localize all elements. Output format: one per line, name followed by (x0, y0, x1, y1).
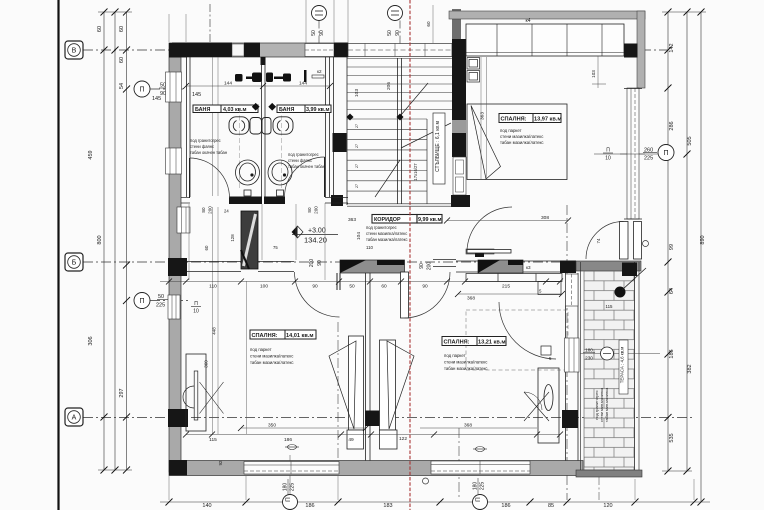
bedroom2 label box (442, 337, 506, 346)
svg-text:стени фаянс: стени фаянс (190, 144, 214, 149)
svg-text:под гранитогрес: под гранитогрес (288, 152, 319, 157)
axis marker П2 left (134, 293, 188, 309)
svg-text:60: 60 (119, 26, 125, 32)
svg-text:стени мазилка/латекс: стени мазилка/латекс (444, 360, 488, 365)
toilet 2 (262, 117, 293, 134)
bedroom 13.97 door leaf (467, 250, 511, 254)
svg-text:186: 186 (284, 437, 292, 443)
svg-text:200: 200 (208, 206, 213, 214)
svg-text:50: 50 (387, 30, 393, 36)
svg-text:890: 890 (700, 235, 706, 244)
west wall black block axis Б (168, 258, 187, 276)
svg-text:П: П (663, 150, 668, 157)
bathroom partition wall (262, 57, 266, 197)
bedroom2 north closet (466, 274, 562, 295)
svg-text:180: 180 (585, 348, 593, 353)
stair east wall gray gap (452, 120, 466, 133)
svg-text:ТЕРАСА : 4,6 кв.м: ТЕРАСА : 4,6 кв.м (620, 347, 625, 384)
svg-text:+3.00: +3.00 (308, 228, 326, 235)
terrace label box (619, 340, 628, 394)
svg-text:СТЪЛБИЩЕ : 6,1 кв.м: СТЪЛБИЩЕ : 6,1 кв.м (435, 121, 441, 172)
stair east wall black mid (452, 133, 466, 157)
west wall black block top corner (169, 43, 187, 58)
terrace south band (576, 470, 642, 477)
balcony door swing arc (586, 222, 624, 260)
shaft (241, 211, 258, 269)
svg-text:СПАЛНЯ:: СПАЛНЯ: (252, 333, 278, 339)
svg-text:200: 200 (309, 259, 315, 268)
svg-text:50: 50 (158, 294, 164, 300)
bedroom1 finish text (250, 347, 294, 365)
bathroom bottom wall thin right (325, 198, 348, 204)
svg-text:225: 225 (480, 482, 486, 491)
stair direction arrows (375, 83, 451, 197)
svg-text:225: 225 (290, 483, 296, 492)
right dimension lines (662, 12, 706, 502)
svg-text:СПАЛНЯ:: СПАЛНЯ: (501, 117, 527, 123)
bedroom1 bed wedge (329, 341, 356, 429)
axis marker Б (65, 253, 83, 271)
fixture centerline bath1 (239, 108, 241, 190)
svg-text:115: 115 (209, 437, 217, 443)
door label 200/90 left (309, 259, 323, 268)
bathroom1 label box (193, 105, 258, 113)
svg-text:225: 225 (156, 303, 165, 309)
svg-text:60: 60 (204, 245, 209, 250)
stairwell west wall black block (333, 133, 347, 152)
svg-text:180: 180 (283, 483, 289, 492)
svg-text:17х16/27: 17х16/27 (413, 163, 418, 181)
bath dim line (183, 81, 333, 90)
svg-text:90: 90 (419, 263, 425, 269)
svg-text:308: 308 (541, 215, 549, 221)
svg-text:90: 90 (319, 30, 325, 36)
terrace north band (576, 261, 641, 271)
bedroom north closet band (466, 24, 624, 56)
svg-text:10: 10 (193, 309, 199, 315)
axis marker П1 left (134, 81, 186, 102)
bedroom west door frame (453, 157, 466, 195)
axis dash-dot vertical x210 (209, 4, 211, 57)
bedroom 13.97 dim 308 (444, 215, 571, 224)
svg-text:к3: к3 (526, 265, 531, 270)
svg-text:60: 60 (119, 57, 125, 63)
svg-text:КОРИДОР: КОРИДОР (374, 217, 401, 223)
svg-text:200: 200 (427, 262, 433, 271)
sink 2 (268, 160, 292, 196)
svg-text:505: 505 (687, 136, 693, 145)
bath2 door arc (285, 157, 325, 197)
top wall base band (181, 43, 348, 57)
bedroom2 east wall (566, 273, 579, 461)
svg-text:9,99 кв.м: 9,99 кв.м (418, 217, 442, 223)
divider wall bedrooms (366, 273, 371, 461)
top window band over stairs (348, 44, 452, 57)
west wall window 2 (166, 148, 182, 174)
red section line (409, 0, 411, 510)
axis line А horizontal (83, 417, 695, 419)
stair stringer (398, 58, 402, 204)
slab edge band top-right (449, 11, 645, 19)
terrace east edge (635, 262, 640, 477)
south wall black block SW (169, 460, 187, 476)
door labels 80/200 bath2 (307, 206, 319, 214)
svg-text:табан мин.мазилка: табан мин.мазилка (604, 387, 609, 422)
left dim ticks (101, 9, 131, 474)
svg-text:под паркет: под паркет (500, 128, 522, 133)
terrace door line (580, 347, 660, 361)
bath1 dim extension lines (213, 57, 219, 434)
svg-text:табан мазилка/латекс: табан мазилка/латекс (444, 366, 488, 371)
terrace NE corner block (622, 263, 637, 277)
svg-text:350: 350 (268, 423, 276, 429)
svg-text:103: 103 (354, 89, 360, 97)
svg-text:табан мазилка/латекс: табан мазилка/латекс (500, 140, 544, 145)
svg-text:122: 122 (399, 436, 407, 442)
svg-text:75: 75 (273, 245, 278, 250)
bedroom 13.97 door arc (467, 207, 512, 252)
axis dash-dot vertical x567 (566, 205, 568, 500)
svg-text:99: 99 (669, 244, 675, 250)
lintel marker k2 (312, 69, 324, 78)
level marker (292, 226, 338, 245)
axis line Б horizontal (83, 261, 578, 263)
svg-text:363: 363 (480, 112, 486, 120)
south wall window bedroom1 (244, 462, 339, 475)
stair east wall black upper (452, 39, 466, 120)
bedroom2 door leaf (401, 272, 409, 318)
bedroom2 finish text (444, 353, 488, 371)
svg-text:110: 110 (209, 284, 217, 290)
svg-text:134.20: 134.20 (304, 236, 327, 245)
lower rooms dim 350 (238, 423, 369, 432)
bathroom west wall (187, 57, 191, 197)
svg-text:306: 306 (88, 336, 94, 345)
axis dash-dot vertical x459 (458, 428, 460, 500)
svg-text:49: 49 (348, 437, 354, 443)
corridor dim line (160, 279, 563, 290)
svg-text:80: 80 (307, 207, 312, 213)
furniture dashed outline bedroom2 (466, 310, 568, 370)
svg-text:50: 50 (311, 30, 317, 36)
bedroom 13.97 finish text (500, 128, 544, 145)
svg-text:П: П (606, 148, 610, 154)
axis marker П3 right (594, 145, 674, 162)
svg-text:74: 74 (596, 238, 601, 243)
middle wall hatched bar 1 (340, 260, 405, 273)
svg-text:120: 120 (603, 503, 612, 509)
svg-text:142: 142 (669, 43, 675, 52)
svg-text:П: П (285, 497, 292, 502)
svg-text:табан мазилка/латекс: табан мазилка/латекс (366, 237, 408, 242)
partition top black (261, 57, 266, 65)
svg-text:к4: к4 (526, 18, 531, 24)
svg-text:115: 115 (606, 304, 614, 309)
svg-text:368: 368 (467, 296, 475, 302)
left dimension lines (98, 12, 132, 470)
bedroom2 nightstand (380, 430, 398, 449)
svg-text:табан окачен табан: табан окачен табан (288, 164, 325, 169)
fixture centerline bath2 (281, 108, 283, 190)
middle wall segment c (433, 260, 456, 267)
bath2 finish text (288, 152, 325, 169)
svg-text:стени мазилка/латекс: стени мазилка/латекс (500, 134, 544, 139)
svg-text:186: 186 (501, 503, 510, 509)
niche wall below bar1 (337, 273, 340, 290)
svg-text:85: 85 (548, 503, 554, 509)
terrace door frame east wall (565, 338, 580, 372)
balcony door east wall (620, 222, 642, 260)
bathroom2 label box (277, 105, 331, 113)
valve diamond 1 (252, 103, 260, 111)
west wall black block axis А (168, 409, 188, 427)
divider wall black block A (365, 411, 380, 427)
svg-text:100: 100 (260, 284, 268, 290)
middle wall segment a (187, 262, 241, 272)
svg-text:200: 200 (314, 206, 319, 214)
terrace bricks (584, 271, 635, 470)
bathroom bottom wall black segment 2 (264, 197, 285, 205)
terrace extension dashdot (598, 477, 600, 500)
svg-text:145: 145 (152, 96, 161, 102)
svg-text:27: 27 (355, 184, 359, 188)
svg-text:27: 27 (355, 144, 359, 148)
bedroom2 east wall black block A (562, 410, 578, 428)
top dim 60 (426, 5, 433, 43)
svg-text:27: 27 (355, 164, 359, 168)
terrace finish text rotated (594, 387, 609, 422)
bedroom1 bed column (349, 336, 364, 430)
top wall black segment 3 (334, 43, 348, 58)
svg-text:180: 180 (473, 482, 479, 491)
bottom dimension line (160, 501, 710, 503)
svg-text:под гранитогрес: под гранитогрес (366, 225, 397, 230)
bath2 door leaf (324, 157, 326, 197)
middle wall segment b (258, 262, 294, 272)
toilet 1 (229, 117, 262, 134)
svg-text:П: П (139, 87, 144, 94)
bedroom2 door jamb (541, 346, 552, 361)
axis marker П4 bottom (283, 455, 298, 510)
svg-text:103: 103 (591, 70, 596, 78)
valve diamond 2 (268, 103, 276, 111)
west wall window 3 (168, 295, 180, 319)
bathroom bottom wall black segment 1 (229, 197, 262, 205)
svg-text:215: 215 (502, 284, 510, 290)
svg-text:144: 144 (224, 81, 232, 87)
door mark П 10 bedroom1 (191, 301, 201, 315)
east wall upper window frame (566, 274, 579, 306)
bottom dim labels (202, 503, 612, 509)
slab edge band right (637, 11, 645, 88)
extension lines above top wall (169, 0, 348, 43)
svg-text:145: 145 (192, 92, 201, 98)
svg-text:110: 110 (366, 245, 374, 250)
border frame line left (57, 0, 59, 510)
svg-text:225: 225 (644, 156, 653, 162)
svg-text:92: 92 (218, 460, 223, 465)
top wall white gap (232, 44, 244, 56)
axis dash-dot vertical x338 (337, 322, 339, 468)
svg-text:800: 800 (97, 235, 103, 244)
bath1 finish text (190, 138, 227, 155)
svg-text:под паркет: под паркет (444, 353, 466, 358)
svg-text:368: 368 (464, 423, 472, 429)
top wall black segment 2 (244, 43, 260, 58)
middle wall segment e (523, 261, 560, 272)
svg-text:230: 230 (585, 356, 593, 361)
svg-text:80: 80 (201, 207, 206, 213)
stairwell west wall (334, 57, 348, 205)
east wall window band (624, 88, 642, 219)
bottom extension lines (169, 476, 694, 500)
corridor label box (372, 215, 442, 224)
closet extension line (591, 56, 606, 88)
small circle bottom (423, 478, 429, 484)
terrace west edge (580, 262, 582, 477)
svg-text:13,21 кв.м: 13,21 кв.м (478, 340, 505, 346)
top axis circle k1 (311, 6, 327, 44)
right dim ticks (665, 9, 705, 506)
west wall window 1 (166, 72, 182, 102)
axis marker П5 bottom (473, 478, 488, 510)
svg-text:90: 90 (395, 30, 401, 36)
svg-text:183: 183 (383, 503, 392, 509)
svg-text:286: 286 (669, 121, 675, 130)
dot leader line (622, 268, 646, 290)
svg-text:459: 459 (88, 150, 94, 159)
door handle circle (643, 241, 649, 247)
bath1 door arc (190, 158, 230, 198)
bedroom2 wardrobe east (524, 368, 559, 443)
west outer wall (169, 43, 181, 472)
section symbol 1 (285, 445, 299, 450)
bedroom2 inner door arc (499, 302, 556, 359)
svg-text:535: 535 (669, 433, 675, 442)
bedroom1 door arc (295, 272, 340, 317)
svg-text:стени мазилка/латекс: стени мазилка/латекс (250, 354, 294, 359)
svg-text:64: 64 (669, 288, 675, 294)
svg-text:10: 10 (605, 156, 611, 162)
bottom dim ticks (166, 499, 698, 506)
stairs lower flight treads (347, 119, 427, 191)
svg-text:50: 50 (349, 284, 355, 290)
left dim labels (88, 26, 125, 398)
window sill ticks right wall (620, 153, 645, 155)
svg-text:П: П (475, 497, 482, 502)
sink 1 (236, 160, 260, 196)
extension line bedroom1 (246, 281, 248, 434)
axis marker А (65, 408, 83, 426)
svg-text:В: В (72, 48, 77, 55)
svg-text:60: 60 (381, 284, 387, 290)
dim 368 bedroom2 (420, 423, 537, 429)
svg-text:к2: к2 (317, 69, 322, 74)
top axis circle k2 (387, 6, 403, 58)
svg-text:П: П (194, 301, 198, 307)
door shelf bedroom1 top (466, 249, 494, 257)
bathroom bottom wall thin left (181, 198, 190, 204)
svg-text:128: 128 (230, 234, 235, 242)
stair bottom boundary (347, 204, 452, 206)
door labels 80/200 bath1 (201, 206, 213, 214)
svg-text:60: 60 (97, 26, 103, 32)
svg-text:24: 24 (224, 209, 229, 214)
bedroom1 nightstand (347, 430, 364, 449)
svg-text:60: 60 (426, 21, 431, 27)
stair right boundary (426, 119, 428, 204)
svg-text:БАНЯ: БАНЯ (195, 107, 210, 113)
svg-text:90: 90 (312, 284, 318, 290)
top wall window band 1 (305, 44, 334, 57)
svg-text:27: 27 (355, 124, 359, 128)
svg-text:104: 104 (356, 232, 362, 240)
stair east wall black lower (451, 195, 470, 207)
axis marker В (65, 41, 83, 59)
axis line B horizontal (83, 49, 668, 51)
top wall black segment 1 (172, 43, 232, 58)
south wall window bedroom2 (431, 461, 530, 474)
svg-text:206: 206 (386, 82, 392, 90)
svg-text:П: П (139, 298, 144, 305)
bedroom1 label box (250, 330, 316, 339)
west corridor door frame (177, 207, 190, 233)
corridor extension lines (189, 203, 325, 280)
svg-text:под паркет: под паркет (250, 347, 272, 352)
bedroom 13.97 bed (467, 104, 567, 180)
svg-text:186: 186 (305, 503, 314, 509)
bedroom1 wardrobe west (183, 354, 224, 431)
plumbing symbols bath (235, 70, 307, 82)
svg-text:табан мазилка/латекс: табан мазилка/латекс (250, 360, 294, 365)
svg-text:382: 382 (687, 364, 693, 373)
bath1 door leaf (189, 158, 191, 198)
door label 90/200 right (419, 262, 433, 271)
svg-text:90: 90 (422, 284, 428, 290)
stair diamonds (346, 113, 353, 120)
svg-text:363: 363 (348, 217, 356, 223)
stairs upper flight treads (347, 59, 452, 110)
svg-text:А: А (72, 415, 77, 422)
bedroom 13.97 label box (499, 114, 561, 123)
middle wall black block (560, 261, 576, 274)
bedroom2 bed wedge (387, 341, 414, 429)
bed dim lines 363 (481, 57, 487, 180)
svg-text:448: 448 (212, 327, 217, 335)
svg-text:Б: Б (72, 260, 77, 267)
south wall band (169, 461, 583, 476)
right dim labels (669, 43, 706, 442)
NE corner black block (624, 44, 638, 58)
svg-text:297: 297 (119, 388, 125, 397)
svg-text:140: 140 (202, 503, 211, 509)
lower rooms dim line (183, 432, 563, 444)
bedroom2 door arc (405, 272, 451, 318)
dim 368 line (455, 291, 565, 302)
middle wall hatched bar 2 (478, 260, 523, 273)
middle wall segment d (456, 261, 478, 272)
svg-text:под гранитогрес: под гранитогрес (190, 138, 221, 143)
stair tread marks (355, 124, 359, 188)
svg-text:3,99 кв.м: 3,99 кв.м (306, 107, 330, 113)
bathroom2 east wall (326, 57, 330, 197)
svg-text:4,03 кв.м: 4,03 кв.м (223, 107, 247, 113)
svg-text:стени мазилка/латекс: стени мазилка/латекс (366, 231, 407, 236)
svg-text:54: 54 (119, 83, 125, 89)
section symbol 2 (473, 447, 487, 452)
svg-text:186: 186 (669, 349, 675, 358)
stairwell west wall black block lower (331, 195, 343, 206)
